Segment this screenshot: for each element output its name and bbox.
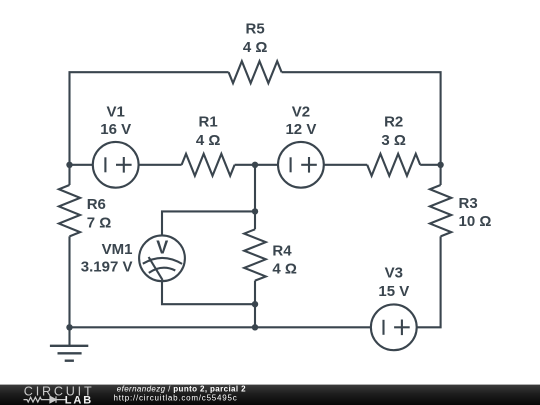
ground xyxy=(50,327,88,360)
voltage source V2 xyxy=(278,142,324,188)
resistor R5 xyxy=(229,61,282,83)
wire R2 to node B xyxy=(420,164,440,166)
svg-text:V2: V2 xyxy=(292,104,310,121)
node B junction R2/R3 xyxy=(437,162,443,168)
voltmeter VM1 xyxy=(139,235,185,281)
logo diode xyxy=(50,396,66,402)
resistor R2 xyxy=(367,154,420,176)
svg-text:R6: R6 xyxy=(87,196,106,213)
svg-text:R3: R3 xyxy=(459,195,478,212)
wire R4 to bottom rail xyxy=(254,281,256,328)
resistor R3 xyxy=(430,185,451,236)
node bottom rail R4 junction xyxy=(252,324,258,330)
svg-text:10 Ω: 10 Ω xyxy=(459,213,492,230)
svg-text:efernandezg / punto 2, parcial: efernandezg / punto 2, parcial 2 xyxy=(117,385,246,394)
node ground junction xyxy=(66,324,72,330)
svg-text:V: V xyxy=(156,238,168,258)
wire node A down to R4 xyxy=(254,165,256,230)
node R4 top junction xyxy=(252,208,258,214)
svg-text:R2: R2 xyxy=(384,114,403,131)
wire VM1 bottom branch xyxy=(162,281,255,304)
wire left rail lower xyxy=(68,236,70,327)
node A junction R1/V2/R4 xyxy=(252,162,258,168)
svg-text:R4: R4 xyxy=(272,243,292,260)
svg-text:http://circuitlab.com/c55495c: http://circuitlab.com/c55495c xyxy=(114,393,238,402)
svg-text:3 Ω: 3 Ω xyxy=(381,132,406,149)
svg-text:LAB: LAB xyxy=(65,395,93,405)
svg-text:4 Ω: 4 Ω xyxy=(243,39,268,56)
svg-text:VM1: VM1 xyxy=(102,241,133,258)
wire top rail right of R5 xyxy=(282,72,441,185)
wire right rail lower to V3 xyxy=(417,236,441,327)
node junction left main xyxy=(66,162,72,168)
voltage source V1 xyxy=(93,142,139,188)
wire main row left xyxy=(70,164,93,166)
svg-text:R1: R1 xyxy=(199,114,218,131)
wire R1 to node A xyxy=(235,164,278,166)
svg-text:15 V: 15 V xyxy=(378,283,409,300)
resistor R6 xyxy=(59,185,80,236)
wire VM1 top branch xyxy=(162,211,255,235)
node R4 bottom junction xyxy=(252,301,258,307)
wire V2 to R2 xyxy=(324,164,367,166)
resistor R1 xyxy=(182,154,235,176)
svg-text:16 V: 16 V xyxy=(100,121,131,138)
wire V1 to R1 xyxy=(139,164,182,166)
wire bottom rail xyxy=(70,326,371,328)
svg-text:4 Ω: 4 Ω xyxy=(272,261,297,278)
svg-text:7 Ω: 7 Ω xyxy=(87,215,112,232)
wire top rail left of R5 xyxy=(70,72,229,185)
svg-text:V1: V1 xyxy=(107,104,125,121)
voltage source V3 xyxy=(371,304,417,350)
svg-text:V3: V3 xyxy=(385,264,403,281)
logo resistor zigzag xyxy=(24,397,50,402)
svg-text:4 Ω: 4 Ω xyxy=(196,132,221,149)
svg-text:R5: R5 xyxy=(246,21,265,38)
svg-text:3.197 V: 3.197 V xyxy=(81,258,133,275)
svg-text:12 V: 12 V xyxy=(285,121,316,138)
resistor R4 xyxy=(244,229,266,280)
